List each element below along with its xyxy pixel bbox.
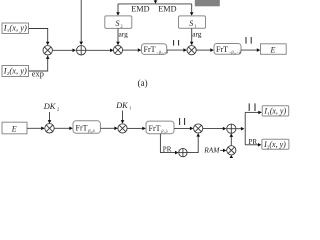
node mult4 (multiplier) bbox=[45, 124, 54, 133]
label EMD right bbox=[158, 5, 176, 14]
node mult6 (multiplier) bbox=[194, 124, 203, 133]
wire: FrT3 to mult5 bbox=[100, 127, 118, 131]
svg-text:E: E bbox=[11, 124, 17, 133]
label arg left bbox=[119, 30, 129, 39]
node add1 (adder) bbox=[77, 46, 86, 55]
svg-text:arg: arg bbox=[119, 30, 129, 39]
wire: down to S2 bbox=[116, 4, 120, 16]
wire: mult6 to add3 bbox=[203, 127, 227, 131]
label DK2 bbox=[43, 102, 60, 112]
label EMD left bbox=[131, 5, 149, 14]
svg-text:(x, y): (x, y) bbox=[269, 140, 286, 149]
svg-text:FrT: FrT bbox=[216, 45, 228, 54]
box S1 bbox=[179, 16, 206, 29]
box E output bbox=[261, 44, 287, 55]
wire: FrT1 to mult3 bbox=[167, 48, 187, 52]
box I1 input bbox=[2, 22, 29, 33]
label modulus bars 1 bbox=[174, 40, 179, 46]
node add3 (adder) bbox=[227, 124, 236, 133]
svg-text:1: 1 bbox=[194, 24, 196, 29]
wire: mult1 to add1 bbox=[52, 49, 76, 53]
wire: branch up to I1 out bbox=[245, 111, 262, 115]
label (a) bbox=[138, 78, 148, 88]
wire: branch vertical bbox=[244, 112, 246, 144]
box FrT4 bbox=[146, 121, 174, 134]
svg-text:(x, y): (x, y) bbox=[270, 107, 287, 116]
svg-text:RAM: RAM bbox=[203, 145, 220, 154]
wire: mult7 up to add3 bbox=[230, 133, 234, 145]
svg-text:DK: DK bbox=[43, 102, 56, 111]
box I1 output bbox=[262, 106, 289, 116]
svg-text:EMD: EMD bbox=[158, 5, 176, 14]
box FrT3 bbox=[73, 121, 100, 134]
node add2 (adder) bbox=[179, 148, 187, 156]
wire: mult2 to FrT1 bbox=[123, 48, 142, 52]
svg-text:FrT: FrT bbox=[149, 124, 161, 133]
svg-text:(a): (a) bbox=[138, 78, 148, 88]
label arg right bbox=[192, 30, 202, 39]
label RAM bbox=[203, 145, 220, 154]
wire: bottom input into mult7 bbox=[230, 155, 234, 158]
wire: add3 to branch junction bbox=[236, 127, 245, 131]
wire: FrT2 to E bbox=[241, 48, 260, 52]
box I2 output bbox=[262, 139, 289, 149]
label PR left bbox=[163, 145, 172, 153]
wire: DK1 down to mult5 bbox=[121, 111, 125, 124]
box S2 bbox=[105, 16, 132, 29]
svg-text:E: E bbox=[270, 45, 276, 54]
wire: FrT4 bottom down PR to add2 bbox=[160, 134, 178, 155]
wire: DK2 down to mult4 bbox=[48, 112, 52, 124]
box E input bbox=[2, 122, 27, 134]
wire: FrT4 to mult6 bbox=[174, 127, 193, 131]
svg-text:PR: PR bbox=[163, 145, 172, 153]
wire: S2 arg down to mult2 bbox=[116, 28, 120, 45]
wire: mult5 to FrT4 bbox=[127, 127, 146, 131]
box FrT2 bbox=[214, 44, 241, 56]
svg-text:(x, y): (x, y) bbox=[9, 65, 27, 75]
svg-text:EMD: EMD bbox=[131, 5, 149, 14]
label exp bbox=[32, 70, 44, 79]
svg-text:2: 2 bbox=[120, 24, 122, 29]
wire: RAM to mult7 bbox=[220, 149, 226, 153]
label DK1 bbox=[115, 101, 132, 111]
wire: I2 exp to mult1 bbox=[29, 55, 50, 71]
label modulus bars 2 bbox=[246, 37, 251, 44]
label PR right bbox=[249, 138, 258, 146]
node mult7 (multiplier) bbox=[227, 146, 236, 155]
wire: S1 arg down to mult3 bbox=[190, 28, 194, 45]
svg-text:S: S bbox=[189, 19, 193, 28]
wire: add1 to mult2 bbox=[86, 49, 114, 53]
wire: input from top into EMD split bbox=[154, 0, 158, 4]
node mult5 (multiplier) bbox=[118, 124, 127, 133]
label modulus bars 3 bbox=[180, 118, 185, 125]
wire: E to mult4 bbox=[27, 127, 45, 131]
label modulus bars 4 bbox=[249, 103, 255, 111]
wire: mult3 to FrT2 bbox=[196, 48, 214, 52]
svg-text:DK: DK bbox=[115, 101, 128, 110]
gray image remnant top right bbox=[195, 0, 220, 6]
wire: down to S1 bbox=[190, 4, 194, 16]
svg-text:arg: arg bbox=[192, 30, 202, 39]
box I2 input bbox=[2, 65, 29, 76]
wire: branch down to I2 out bbox=[245, 143, 261, 147]
box FrT1 bbox=[142, 44, 169, 56]
wire: add2 up into mult6 bbox=[187, 133, 200, 153]
node mult3 (multiplier) bbox=[187, 46, 196, 55]
wire: I1 to mult1 bbox=[29, 29, 50, 46]
node mult2 (multiplier) bbox=[113, 46, 122, 55]
svg-text:(x, y): (x, y) bbox=[9, 22, 27, 32]
wire: EMD split horizontal bbox=[118, 3, 192, 5]
wire: mult4 to FrT3 bbox=[54, 127, 73, 131]
svg-text:FrT: FrT bbox=[76, 124, 88, 133]
wire: top input into add1 bbox=[79, 0, 83, 45]
svg-text:FrT: FrT bbox=[144, 45, 156, 54]
node mult1 (multiplier) bbox=[43, 46, 52, 55]
svg-text:S: S bbox=[116, 19, 120, 28]
